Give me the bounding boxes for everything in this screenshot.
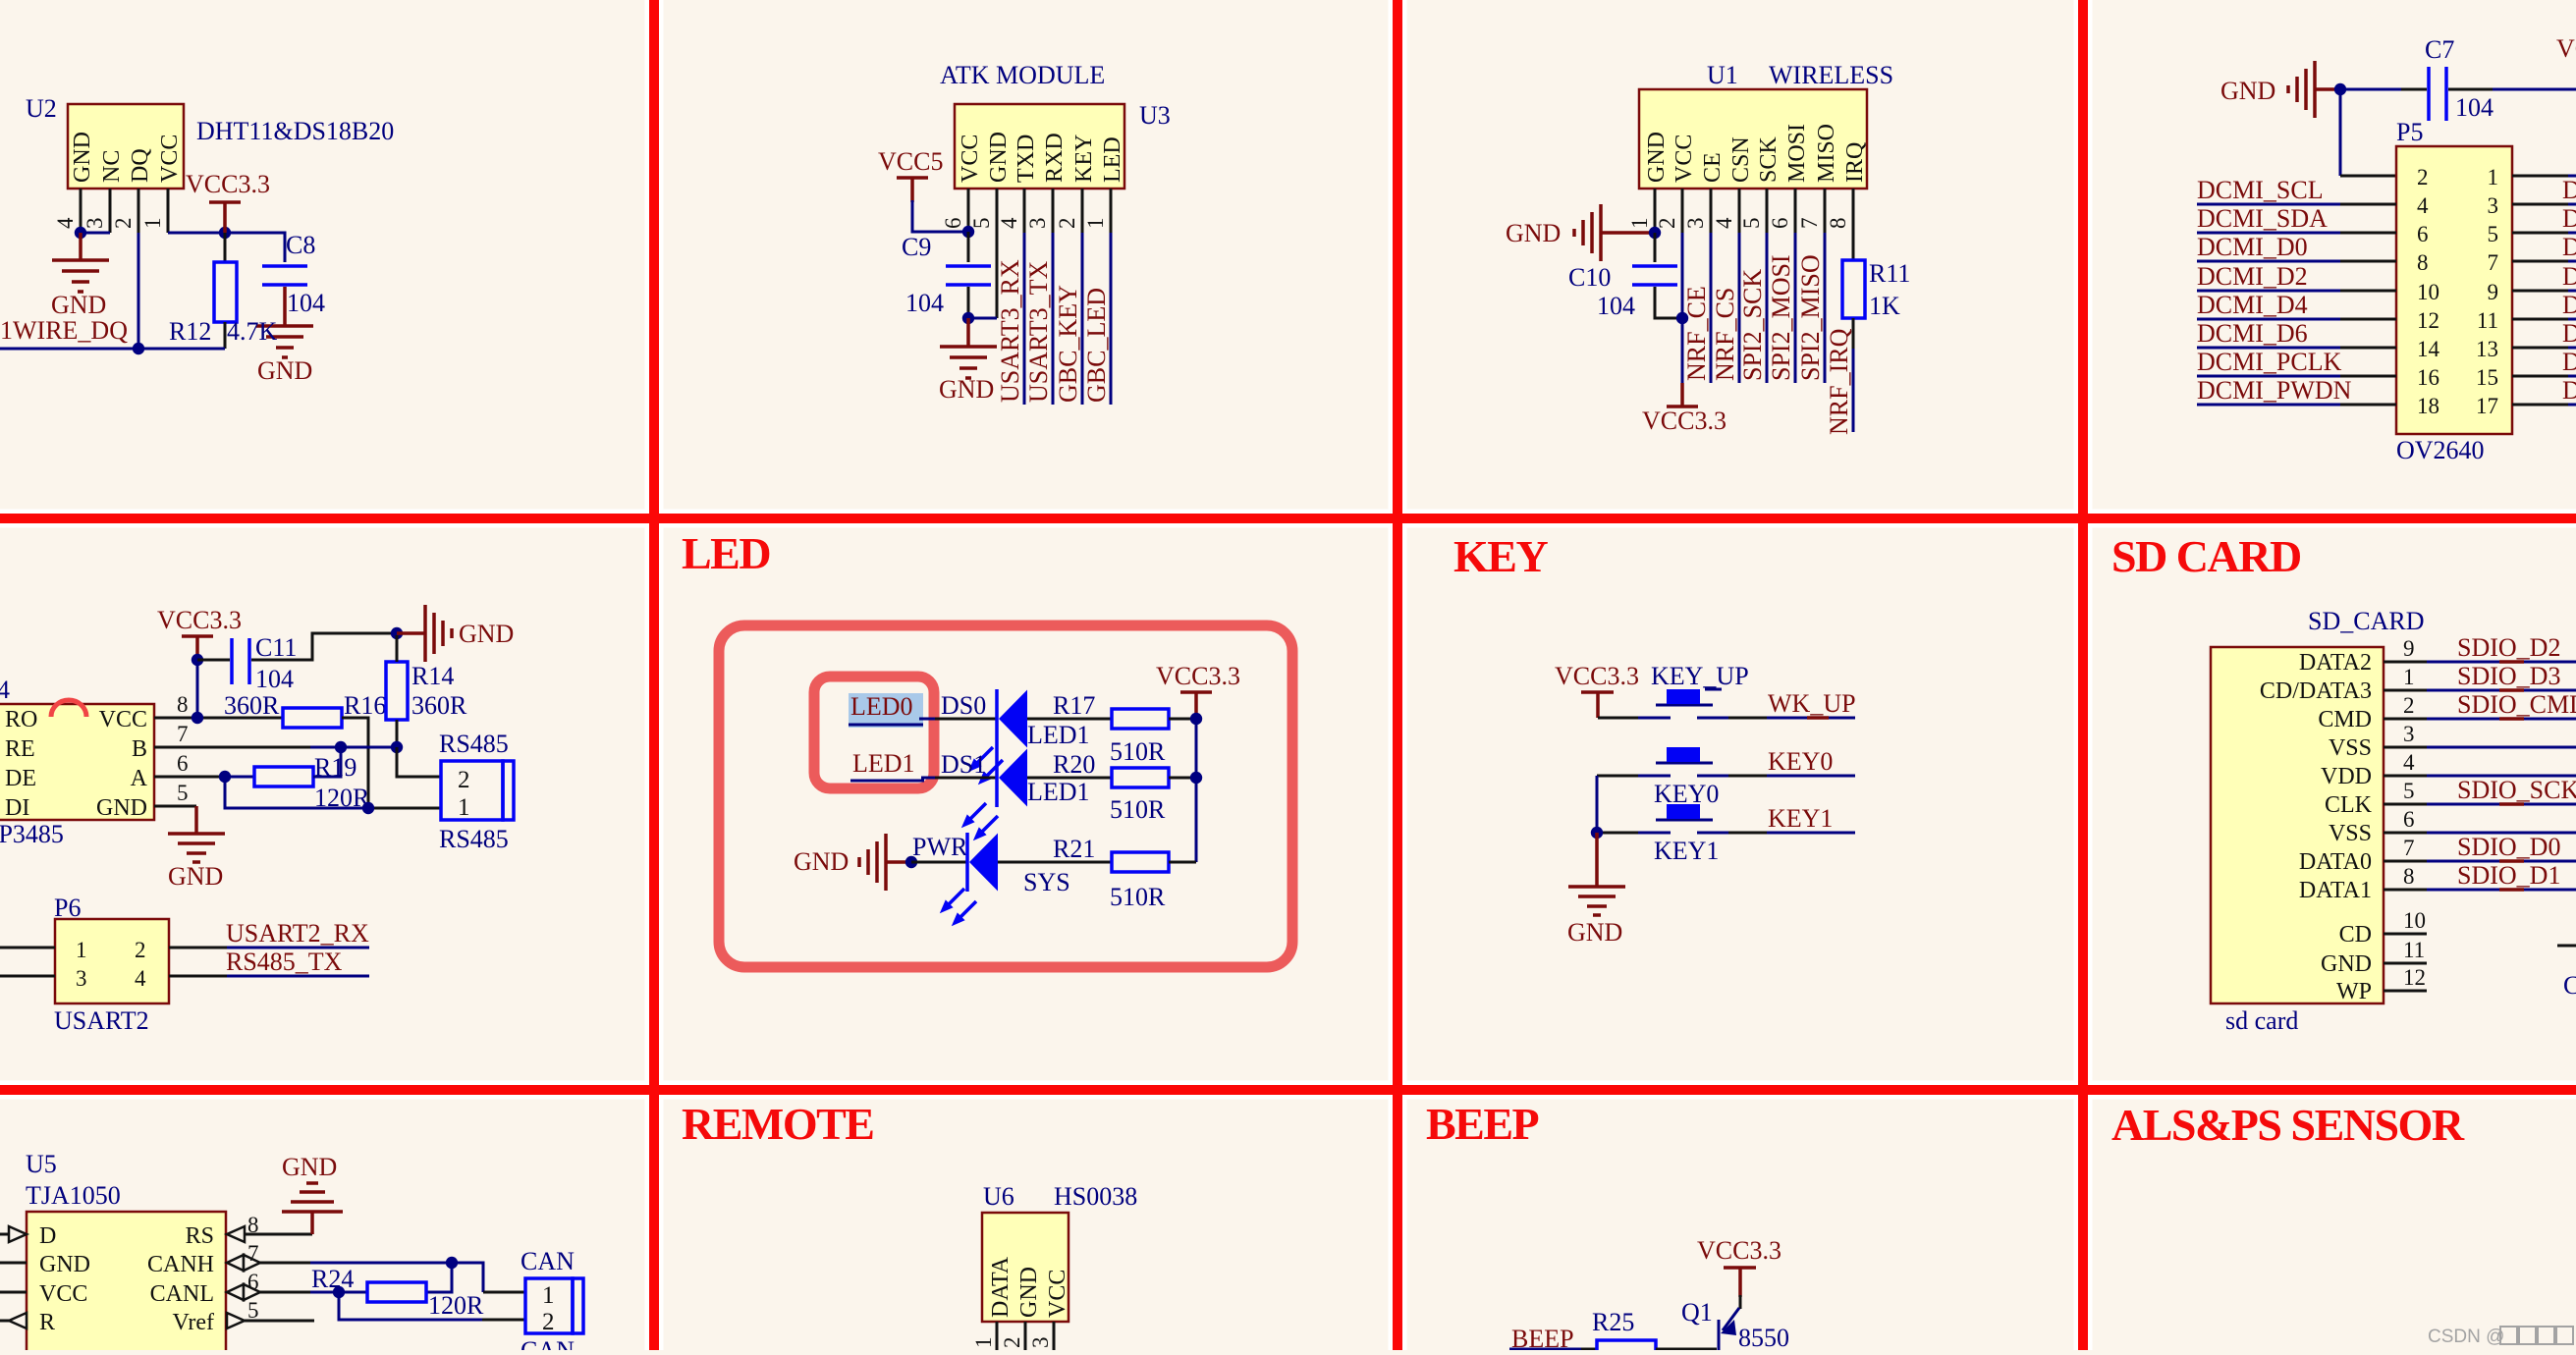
- svg-text:10: 10: [2417, 280, 2439, 304]
- svg-text:1: 1: [971, 1337, 996, 1349]
- wire pin5 to gnd node: [968, 317, 997, 320]
- svg-text:1: 1: [2403, 665, 2415, 689]
- junction VCC rail top: [1190, 713, 1202, 725]
- wire net DCMI_SCL: [2197, 176, 2396, 204]
- wire net SDIO_D1 pin8: [2384, 861, 2576, 890]
- svg-text:IRQ: IRQ: [1842, 142, 1868, 183]
- resistor R21 510R: [1053, 835, 1169, 911]
- IC U6 body HS0038: [982, 1182, 1137, 1322]
- svg-text:1: 1: [1083, 218, 1108, 230]
- ground symbol GND: [1567, 887, 1625, 947]
- svg-text:1: 1: [458, 794, 470, 821]
- svg-text:D: D: [2562, 376, 2576, 405]
- resistor R24 120R: [311, 1265, 484, 1320]
- svg-text:3: 3: [1025, 218, 1050, 230]
- junction CANH node: [446, 1257, 458, 1269]
- wire CANH node to R24: [426, 1263, 452, 1292]
- svg-text:SDIO_D3: SDIO_D3: [2457, 662, 2560, 690]
- net label LED0 highlighted: [849, 692, 923, 728]
- net label BEEP: [1509, 1325, 1581, 1353]
- svg-text:U5: U5: [26, 1150, 57, 1178]
- svg-text:sd card: sd card: [2225, 1006, 2298, 1035]
- svg-text:5: 5: [2488, 222, 2499, 246]
- wire net DCMI_PWDN: [2197, 376, 2396, 405]
- svg-text:SDIO_D2: SDIO_D2: [2457, 633, 2560, 662]
- svg-text:6: 6: [941, 218, 965, 230]
- svg-text:RO: RO: [5, 707, 37, 732]
- svg-text:KEY0: KEY0: [1768, 747, 1833, 776]
- ground symbol GND under U4: [168, 834, 225, 891]
- wire R25 to Q1 base: [1656, 1348, 1717, 1351]
- ground symbol GND top: [2220, 61, 2340, 118]
- wire rail to KEY0 switch: [1597, 775, 1640, 778]
- wire R12 to DQ net: [224, 322, 227, 349]
- power symbol VCC3.3: [1697, 1236, 1781, 1297]
- wire net DCMI_D0: [2197, 233, 2396, 261]
- svg-text:LED: LED: [1100, 136, 1125, 183]
- pin arrow CANH bidir: [227, 1255, 260, 1271]
- junction DQ node: [133, 343, 144, 354]
- svg-text:SCK: SCK: [1756, 136, 1781, 183]
- svg-text:CAN: CAN: [521, 1336, 575, 1350]
- svg-text:SPI2_MISO: SPI2_MISO: [1796, 254, 1825, 381]
- svg-text:NRF_CE: NRF_CE: [1682, 286, 1711, 381]
- svg-text:2: 2: [1055, 218, 1079, 230]
- wire U2 pin3 stub: [109, 189, 112, 233]
- wire B to RS485 pin2: [397, 747, 441, 777]
- net label underline ticks: [2499, 662, 2524, 890]
- svg-text:2: 2: [135, 938, 146, 962]
- junction VCC3.3 node: [219, 227, 231, 239]
- svg-text:2: 2: [458, 767, 470, 793]
- svg-text:104: 104: [255, 665, 294, 693]
- grid divider vertical line 3: [2078, 0, 2088, 1350]
- svg-text:VCC3.3: VCC3.3: [1642, 406, 1726, 435]
- wire rail to ground: [1595, 833, 1599, 887]
- svg-text:LED1: LED1: [1027, 721, 1090, 749]
- wire net USART3_RX: [1023, 233, 1026, 405]
- wire LED0 to DS0: [919, 718, 998, 721]
- svg-text:4: 4: [1712, 217, 1736, 229]
- junction VCC node: [1676, 312, 1688, 324]
- svg-text:12: 12: [2417, 308, 2439, 333]
- svg-text:CMD: CMD: [2318, 707, 2372, 732]
- svg-text:DCMI_SCL: DCMI_SCL: [2197, 176, 2324, 204]
- svg-text:GND: GND: [794, 847, 849, 876]
- wire gnd to PWR led: [911, 861, 968, 864]
- svg-text:SPI2_MOSI: SPI2_MOSI: [1767, 254, 1795, 381]
- svg-text:R11: R11: [1869, 259, 1910, 288]
- svg-text:SDIO_SCK: SDIO_SCK: [2457, 776, 2576, 804]
- wire net NRF_IRQ: [1852, 349, 1855, 432]
- resistor R19 120R: [254, 753, 370, 812]
- grid divider vertical line 1: [649, 0, 659, 1350]
- wire DS0 to R17: [1027, 718, 1112, 721]
- wire U4 pin8: [154, 717, 283, 720]
- svg-text:1: 1: [2488, 165, 2499, 190]
- wire R14 to B net: [396, 720, 399, 747]
- wire R20 to VCC rail: [1169, 777, 1196, 780]
- grid divider horizontal line 1: [0, 514, 2576, 523]
- svg-text:GND: GND: [986, 132, 1012, 183]
- ground symbol GND under U2: [51, 260, 109, 319]
- label U1 WIRELESS: [1707, 61, 1893, 89]
- svg-text:A: A: [131, 766, 148, 791]
- power symbol VCC3.3: [186, 170, 270, 233]
- svg-text:3: 3: [2403, 722, 2415, 746]
- wire U5 pin D left: [0, 1233, 9, 1236]
- wire into P5 pin2: [2340, 175, 2396, 178]
- svg-text:VCC: VCC: [1672, 135, 1697, 183]
- svg-text:ALS&PS SENSOR: ALS&PS SENSOR: [2111, 1100, 2465, 1150]
- svg-text:SYS: SYS: [1023, 868, 1070, 896]
- power symbol VCC3.3: [1555, 662, 1639, 718]
- wire pin6 to C9: [967, 232, 970, 262]
- wire U1 pin3 stub: [1710, 189, 1713, 233]
- svg-text:NRF_CS: NRF_CS: [1711, 288, 1739, 381]
- wire net SDIO_D0 pin7: [2384, 833, 2576, 861]
- junction CANL node: [333, 1286, 345, 1298]
- svg-text:510R: 510R: [1110, 883, 1166, 911]
- svg-text:RS485_TX: RS485_TX: [226, 948, 343, 976]
- svg-text:16: 16: [2417, 365, 2439, 390]
- junction VCC rail mid: [1190, 772, 1202, 784]
- svg-text:1WIRE_DQ: 1WIRE_DQ: [0, 316, 128, 345]
- svg-text:CAN: CAN: [521, 1247, 575, 1275]
- wire net USART3_TX: [1052, 233, 1055, 405]
- wire U4 pin6 A: [154, 776, 225, 779]
- svg-text:VCC3.3: VCC3.3: [1555, 662, 1639, 690]
- svg-text:4: 4: [997, 217, 1021, 229]
- svg-text:GND: GND: [2220, 77, 2275, 105]
- svg-text:4.7K: 4.7K: [227, 317, 278, 346]
- LED PWR emission arrows: [940, 889, 976, 926]
- capacitor C10 104: [1568, 263, 1677, 320]
- wire net DCMI_D4: [2197, 291, 2396, 319]
- svg-text:OV2640: OV2640: [2396, 436, 2485, 464]
- svg-text:8: 8: [2417, 250, 2429, 275]
- wire BEEP to R25: [1581, 1348, 1597, 1351]
- svg-text:8550: 8550: [1738, 1324, 1789, 1350]
- wire net GBC_LED: [1110, 233, 1113, 405]
- svg-text:Q1: Q1: [1681, 1298, 1713, 1327]
- wire rail to KEY1 switch: [1597, 832, 1640, 835]
- connector P6 body: [54, 894, 169, 1035]
- svg-text:8: 8: [1826, 218, 1850, 230]
- svg-text:USART3_RX: USART3_RX: [996, 259, 1024, 403]
- svg-text:LED: LED: [682, 528, 770, 578]
- svg-text:U1: U1: [1707, 61, 1738, 89]
- grid divider horizontal line 2: [0, 1085, 2576, 1095]
- svg-text:LED1: LED1: [852, 749, 915, 778]
- svg-text:BEEP: BEEP: [1511, 1325, 1574, 1350]
- wire PWR to R21: [998, 861, 1112, 864]
- svg-text:R24: R24: [311, 1265, 354, 1293]
- wire U5 pin7 CANH: [260, 1262, 452, 1265]
- svg-text:RE: RE: [5, 736, 35, 762]
- svg-text:17: 17: [2476, 394, 2498, 418]
- svg-text:7: 7: [177, 722, 189, 746]
- grid divider vertical line 2: [1393, 0, 1402, 1350]
- svg-text:VCC5: VCC5: [878, 147, 943, 176]
- wire U5 pin GND left: [0, 1262, 27, 1265]
- svg-text:4: 4: [0, 676, 10, 704]
- ground symbol GND inverted: [282, 1153, 343, 1212]
- svg-text:5: 5: [247, 1298, 259, 1323]
- svg-text:6: 6: [2403, 807, 2415, 832]
- svg-text:DCMI_D2: DCMI_D2: [2197, 262, 2308, 291]
- svg-text:C8: C8: [286, 231, 315, 259]
- svg-text:4: 4: [2417, 193, 2429, 218]
- svg-text:R16: R16: [344, 691, 386, 720]
- wire U3 pin6 stub: [967, 189, 970, 232]
- svg-text:R25: R25: [1592, 1308, 1634, 1336]
- pushbutton KEY0: [1638, 747, 1728, 808]
- wire C10 to VCC node: [1655, 287, 1682, 318]
- svg-text:360R: 360R: [224, 691, 280, 720]
- svg-text:C: C: [2563, 971, 2576, 1000]
- svg-text:SP3485: SP3485: [0, 820, 64, 848]
- wire net DCMI_SDA: [2197, 204, 2396, 233]
- svg-text:DCMI_D4: DCMI_D4: [2197, 291, 2308, 319]
- wire U4 pin7 B: [154, 746, 397, 749]
- svg-text:SDIO_CMD: SDIO_CMD: [2457, 690, 2576, 719]
- svg-text:R20: R20: [1053, 750, 1095, 779]
- junction pin8 node: [192, 712, 203, 724]
- svg-text:3: 3: [2488, 193, 2499, 218]
- svg-text:KEY1: KEY1: [1768, 804, 1833, 833]
- wire net SPI2_MOSI: [1794, 233, 1797, 383]
- svg-text:CLK: CLK: [2325, 792, 2373, 818]
- wire net GBC_KEY: [1081, 233, 1084, 405]
- svg-text:GND: GND: [168, 862, 223, 891]
- watermark CSDN: [2428, 1327, 2573, 1347]
- wire pin11 stub: [2384, 938, 2427, 963]
- svg-text:WK_UP: WK_UP: [1768, 689, 1856, 718]
- svg-text:6: 6: [1768, 218, 1792, 230]
- svg-text:D: D: [2562, 233, 2576, 261]
- wire net SDIO_SCK pin5: [2384, 776, 2576, 804]
- svg-text:CE: CE: [1700, 152, 1726, 183]
- wire R11 down: [1852, 318, 1855, 349]
- ground symbol GND right: [397, 605, 514, 662]
- svg-text:VCC3.3: VCC3.3: [186, 170, 270, 198]
- wire pin10 stub: [2384, 908, 2427, 934]
- wire P6 pin1 left: [0, 947, 55, 949]
- svg-text:R17: R17: [1053, 691, 1095, 720]
- resistor R17 510R: [1053, 691, 1169, 766]
- svg-text:GND: GND: [51, 291, 106, 319]
- svg-text:SDIO_D1: SDIO_D1: [2457, 861, 2560, 890]
- wire U6 pin1 stub: [996, 1322, 999, 1350]
- svg-text:D: D: [2562, 204, 2576, 233]
- svg-text:HS0038: HS0038: [1054, 1182, 1137, 1211]
- wire VCC to Q1 emitter: [1739, 1295, 1742, 1309]
- red annotation rounded box inner: [814, 677, 934, 788]
- wire U6 pin3 stub: [1053, 1322, 1056, 1350]
- P5 pin numbers right column: [2476, 165, 2498, 418]
- svg-text:U3: U3: [1139, 101, 1171, 130]
- svg-text:D: D: [2562, 319, 2576, 348]
- wire net SDIO_D2 pin9: [2384, 633, 2576, 662]
- wire U3 pin1 stub: [1110, 189, 1113, 233]
- transistor Q1 8550: [1719, 1308, 1789, 1355]
- connector SD_CARD body: [2211, 607, 2424, 1035]
- wire U1 pin8 stub: [1852, 189, 1855, 260]
- wire R21 to VCC rail: [1169, 861, 1196, 864]
- svg-text:7: 7: [247, 1241, 259, 1266]
- svg-text:CSDN @: CSDN @: [2428, 1327, 2504, 1347]
- junction pin4 node: [75, 227, 86, 239]
- svg-text:1: 1: [542, 1282, 555, 1309]
- svg-text:3: 3: [76, 966, 87, 991]
- svg-text:11: 11: [2477, 308, 2498, 333]
- LED DS0: [997, 689, 1090, 749]
- resistor R25: [1592, 1308, 1656, 1355]
- svg-text:MOSI: MOSI: [1784, 124, 1810, 183]
- wire A to R19: [225, 776, 254, 779]
- wire net WK_UP: [1728, 689, 1856, 718]
- wire pin1 to C10: [1654, 233, 1657, 262]
- svg-text:GND: GND: [282, 1153, 337, 1181]
- svg-text:VCC3.3: VCC3.3: [1697, 1236, 1781, 1265]
- IC U2 body: [26, 94, 394, 189]
- wire U3 pin4 stub: [1023, 189, 1026, 233]
- power symbol VCC3.3: [1156, 662, 1240, 719]
- wire RS to ground: [310, 1212, 314, 1234]
- IC U5 body TJA1050: [26, 1150, 226, 1355]
- svg-text:P6: P6: [54, 894, 81, 922]
- svg-text:2: 2: [111, 218, 136, 230]
- svg-text:USART2: USART2: [54, 1006, 149, 1035]
- svg-text:VCC3.3: VCC3.3: [2556, 34, 2576, 63]
- svg-text:DHT11&DS18B20: DHT11&DS18B20: [196, 117, 394, 145]
- svg-text:1: 1: [1627, 218, 1652, 230]
- svg-text:KEY1: KEY1: [1654, 837, 1719, 865]
- wire net USART2_RX: [169, 919, 369, 948]
- svg-text:R12: R12: [169, 317, 211, 346]
- wire net KEY0: [1728, 747, 1855, 776]
- wire gnd node to C7: [2340, 88, 2427, 91]
- wire gnd node down to P5 pin2: [2339, 89, 2342, 176]
- svg-text:DATA0: DATA0: [2299, 849, 2372, 875]
- svg-text:VCC: VCC: [1045, 1270, 1070, 1318]
- wire CANH to CAN pin1: [452, 1263, 525, 1292]
- svg-text:VDD: VDD: [2321, 764, 2372, 789]
- junction B-R19 node: [335, 741, 347, 753]
- svg-text:DCMI_D0: DCMI_D0: [2197, 233, 2308, 261]
- svg-text:2: 2: [2403, 693, 2415, 718]
- svg-text:GBC_KEY: GBC_KEY: [1054, 285, 1082, 403]
- power symbol VCC3.3: [157, 606, 242, 660]
- wire VCC node to R12: [224, 233, 227, 262]
- wire VCC to KEY_UP switch: [1598, 717, 1640, 720]
- svg-text:120R: 120R: [428, 1291, 484, 1320]
- wire pin3 to pin4: [81, 232, 110, 235]
- svg-text:11: 11: [2403, 938, 2425, 962]
- svg-text:8: 8: [2403, 864, 2415, 889]
- wire pin5 to ground: [194, 806, 198, 834]
- LED DS1 emission arrows: [961, 803, 998, 840]
- connector P5 body: [2396, 118, 2512, 464]
- svg-text:GND: GND: [70, 132, 95, 183]
- capacitor C7 104: [2425, 35, 2494, 122]
- power symbol VCC3.3 below pin2: [1642, 383, 1726, 435]
- ground symbol GND left of PWR: [794, 834, 911, 891]
- svg-text:KEY: KEY: [1453, 531, 1548, 581]
- wire VCC3.3 to pin8: [196, 658, 199, 718]
- svg-text:2: 2: [1655, 218, 1679, 230]
- svg-text:7: 7: [2403, 836, 2415, 860]
- svg-text:3: 3: [1683, 218, 1708, 230]
- svg-text:2: 2: [542, 1309, 555, 1335]
- capacitor C9 104: [902, 233, 991, 317]
- svg-text:5: 5: [1739, 218, 1764, 230]
- svg-text:D: D: [2562, 262, 2576, 291]
- pin arrow RS input: [227, 1226, 245, 1242]
- LED DS1: [997, 748, 1090, 807]
- svg-text:7: 7: [1797, 218, 1822, 230]
- junction gnd node: [391, 627, 403, 639]
- svg-text:WP: WP: [2336, 979, 2372, 1004]
- svg-text:10: 10: [2403, 908, 2426, 933]
- svg-text:4: 4: [2403, 750, 2415, 775]
- IC U1 body: [1639, 89, 1867, 189]
- svg-text:DS0: DS0: [941, 691, 986, 720]
- wire U3 pin3 stub: [1052, 189, 1055, 233]
- wire net SDIO_CMD pin2: [2384, 690, 2576, 719]
- svg-text:GND: GND: [96, 795, 147, 821]
- wire net DCMI_PCLK: [2197, 348, 2396, 376]
- svg-text:4: 4: [135, 966, 146, 991]
- wire U5 pin VCC left: [0, 1291, 27, 1294]
- wire net RS485_TX: [169, 948, 369, 976]
- svg-text:RXD: RXD: [1042, 133, 1068, 183]
- component fragment right edge: [2557, 946, 2576, 1000]
- svg-text:GBC_LED: GBC_LED: [1082, 288, 1111, 403]
- wire node to ground: [966, 318, 970, 347]
- svg-text:B: B: [132, 736, 147, 762]
- pushbutton KEY1: [1638, 804, 1728, 865]
- svg-text:6: 6: [247, 1270, 259, 1294]
- svg-text:DATA1: DATA1: [2299, 878, 2372, 903]
- wire DS1 to R20: [1027, 777, 1112, 780]
- svg-text:DCMI_PWDN: DCMI_PWDN: [2197, 376, 2352, 405]
- svg-text:BEEP: BEEP: [1426, 1099, 1539, 1149]
- wire VCC5 to U3 pin6: [912, 200, 968, 232]
- wire U1 pin7 stub: [1824, 189, 1827, 233]
- power symbol VCC5: [878, 147, 943, 202]
- svg-text:3: 3: [82, 218, 107, 230]
- svg-text:9: 9: [2403, 636, 2415, 661]
- wire net KEY1: [1728, 804, 1855, 833]
- svg-text:VSS: VSS: [2329, 821, 2372, 846]
- junction pin1 node: [1649, 227, 1661, 239]
- net label LED1: [850, 749, 924, 781]
- junction A-R16 node: [362, 802, 374, 814]
- svg-text:WIRELESS: WIRELESS: [1769, 61, 1893, 89]
- svg-text:DCMI_SDA: DCMI_SDA: [2197, 204, 2328, 233]
- wire P6 pin3 left: [0, 975, 55, 978]
- svg-text:2: 2: [2417, 165, 2429, 190]
- wire U5 pin R left: [0, 1320, 9, 1323]
- wire U3 pin2 stub: [1081, 189, 1084, 233]
- pin arrow R output: [9, 1313, 27, 1328]
- wire net VCC down: [1681, 233, 1684, 383]
- svg-text:P5: P5: [2396, 118, 2423, 146]
- junction A node: [219, 771, 231, 783]
- svg-text:VCC: VCC: [39, 1281, 87, 1307]
